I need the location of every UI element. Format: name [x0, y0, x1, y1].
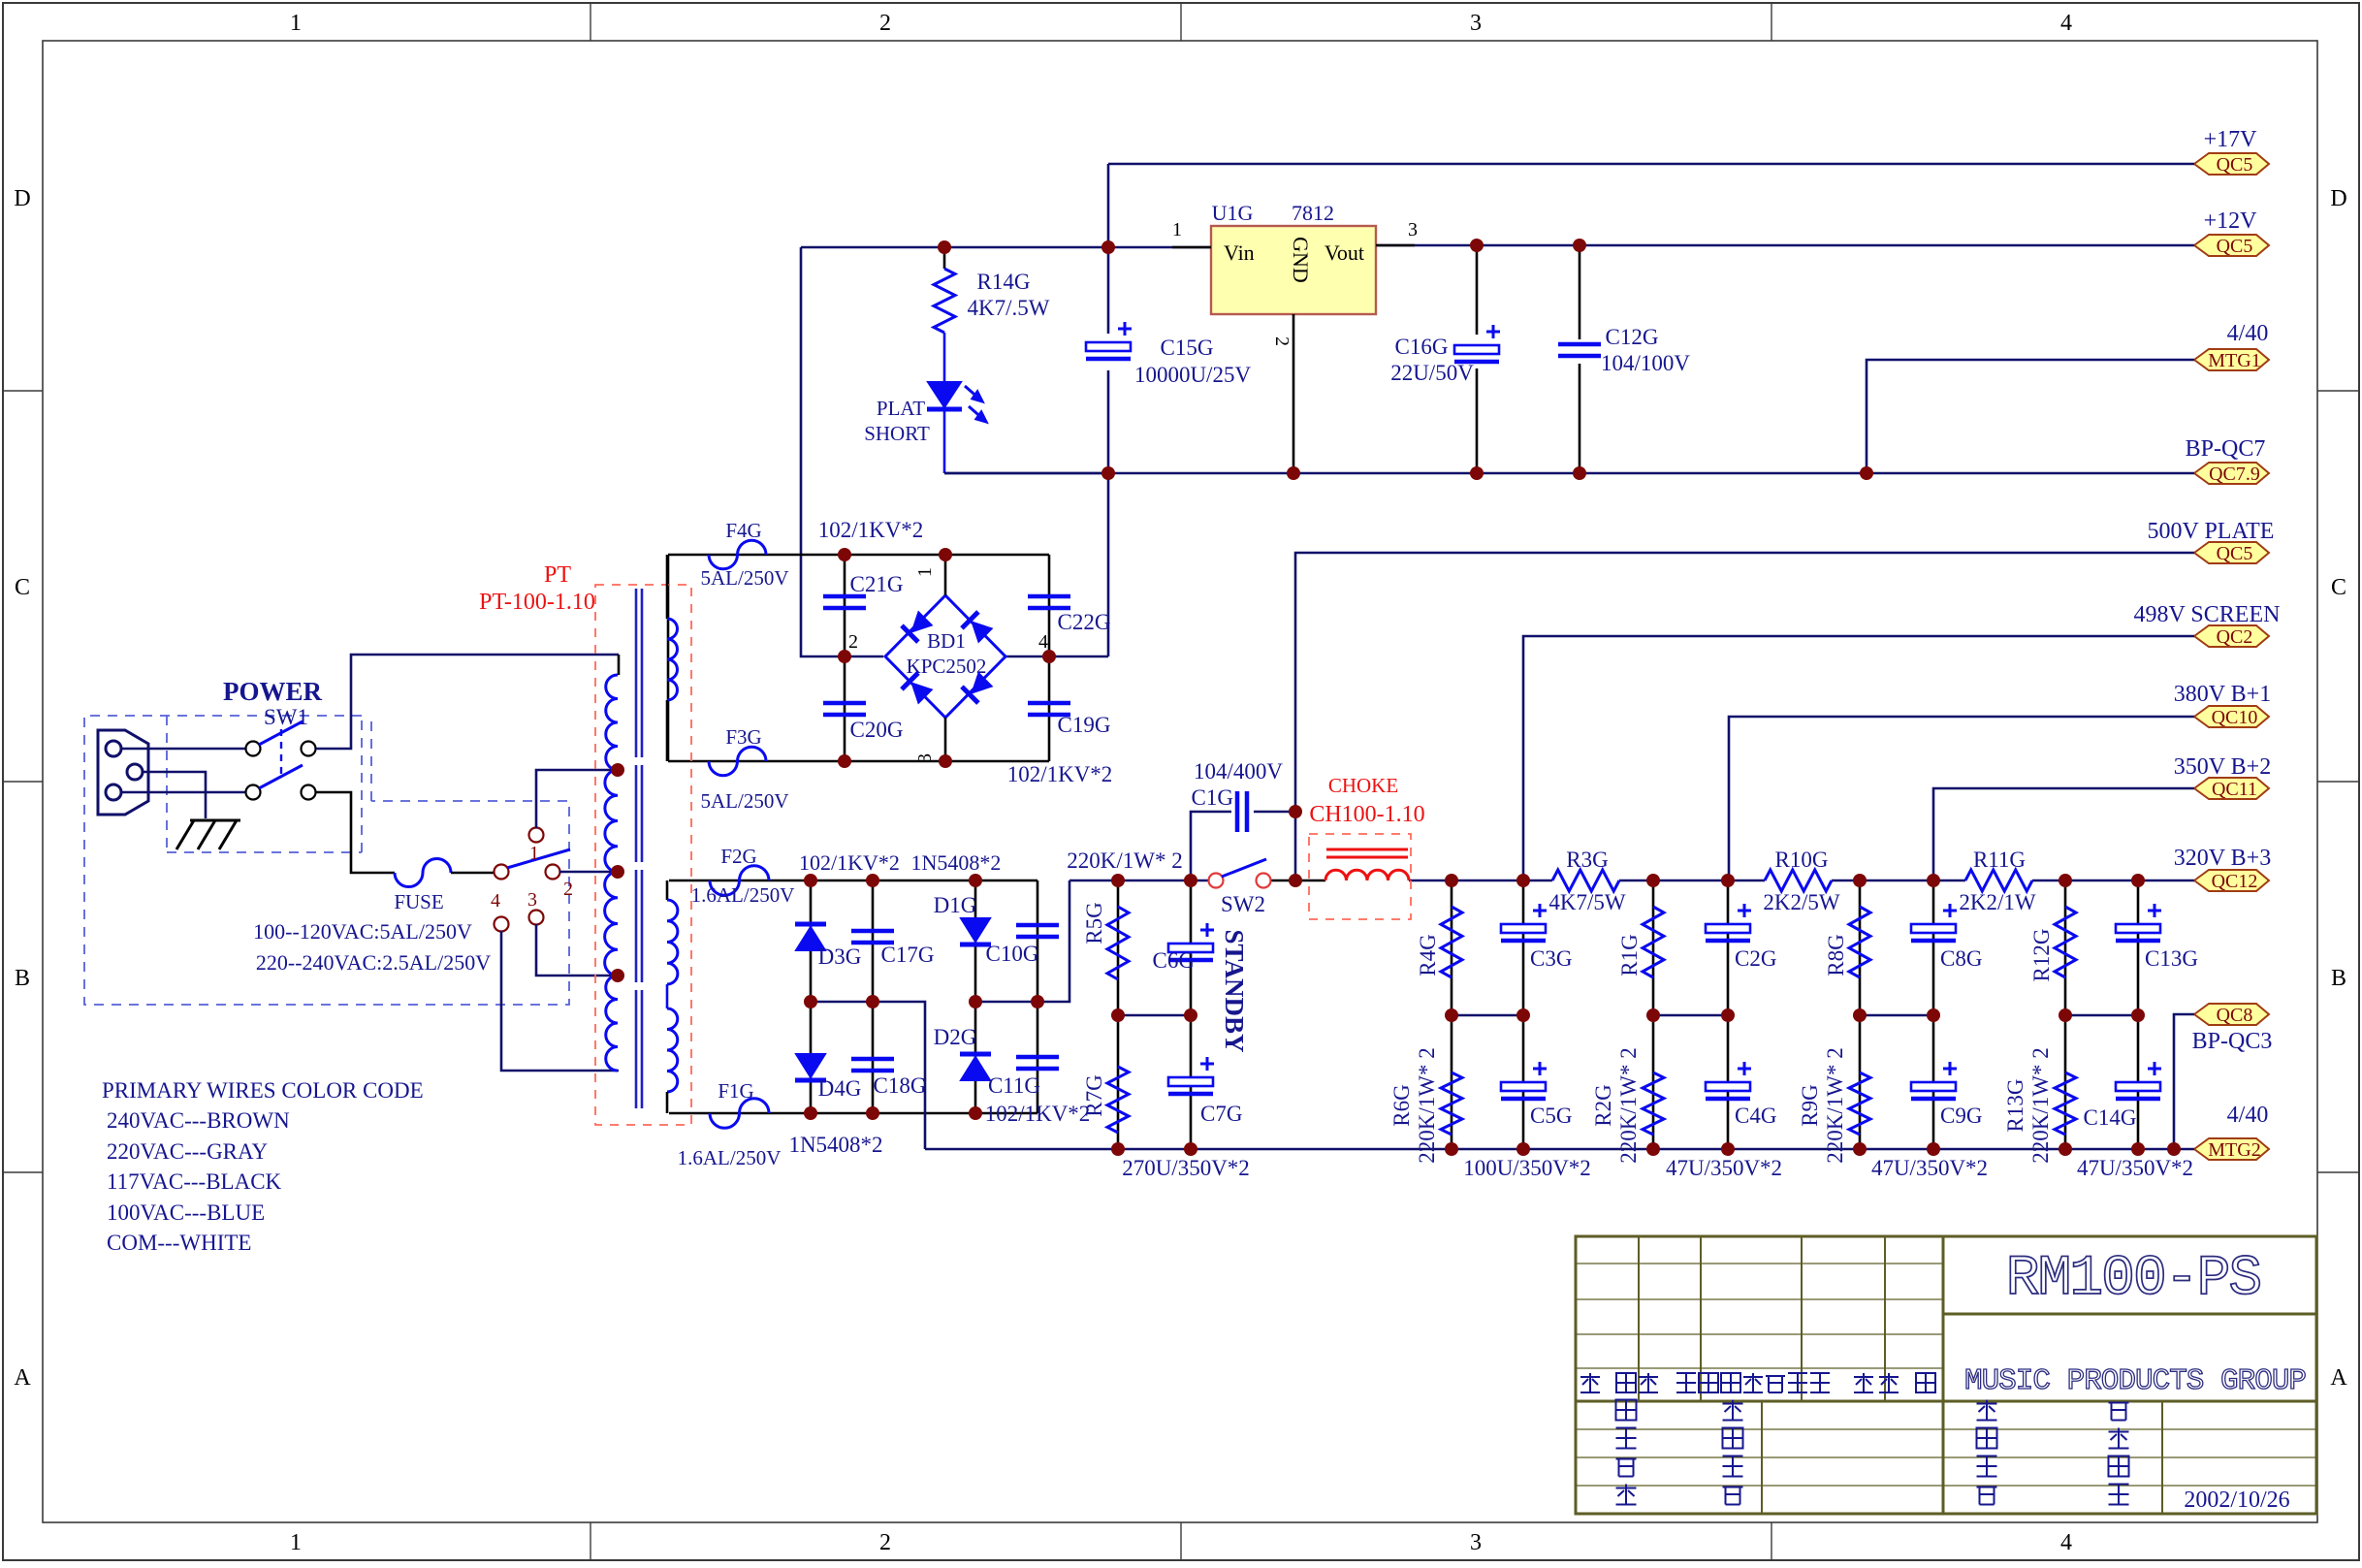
wire selector tap4 [501, 931, 619, 1071]
svg-text:1N5408*2: 1N5408*2 [911, 850, 1002, 875]
svg-text:270U/350V*2: 270U/350V*2 [1122, 1156, 1250, 1180]
bridge BD1 KPC2502 [885, 595, 1005, 718]
diode D1G [974, 880, 977, 1002]
bridge diode top-right [962, 612, 994, 644]
wire 220K node to SW2 [1069, 880, 1208, 882]
wire F2G line [669, 880, 1037, 882]
svg-text:22U/50V: 22U/50V [1390, 361, 1474, 385]
capacitor C11G [1016, 1055, 1059, 1060]
red dashed transformer box [595, 585, 691, 1125]
svg-text:2: 2 [879, 11, 891, 36]
wire SW1 to fuse [316, 792, 395, 873]
U1G pin 3 [1376, 244, 1415, 247]
voltage selector switch [495, 865, 509, 880]
svg-text:+17V: +17V [2204, 127, 2258, 152]
svg-text:D2G: D2G [934, 1025, 977, 1049]
svg-text:C11G: C11G [988, 1073, 1040, 1098]
wire fuse to selector [451, 872, 495, 875]
svg-text:B: B [2331, 966, 2346, 991]
title block header row hanzi [1580, 1373, 1600, 1392]
svg-text:4: 4 [2060, 11, 2072, 36]
svg-text:C10G: C10G [986, 942, 1039, 966]
capacitor C5G [1522, 1015, 1525, 1149]
fuse F4G [709, 540, 766, 569]
svg-text:104/100V: 104/100V [1601, 351, 1690, 375]
series resistor R11G [1965, 870, 2032, 891]
fuse F1G [710, 1099, 769, 1129]
connector MTG1 [2194, 349, 2269, 370]
svg-text:A: A [2330, 1365, 2347, 1391]
resistor R14G [934, 269, 955, 333]
svg-text:QC11: QC11 [2212, 779, 2257, 800]
svg-text:POWER: POWER [223, 677, 323, 706]
svg-text:3: 3 [914, 753, 936, 763]
transformer HV secondary [666, 555, 669, 619]
svg-text:COM---WHITE: COM---WHITE [107, 1231, 251, 1255]
wire Vin drop to bridge pin2 [801, 247, 883, 656]
wire +12V rail [1376, 244, 2194, 247]
svg-text:C13G: C13G [2145, 946, 2198, 971]
svg-text:C5G: C5G [1530, 1104, 1572, 1128]
LED PLAT SHORT [928, 382, 961, 407]
svg-text:C2G: C2G [1735, 946, 1776, 971]
connector QC5 (+12V) [2194, 235, 2269, 256]
svg-text:CHOKE: CHOKE [1328, 774, 1398, 797]
svg-text:Vout: Vout [1325, 240, 1364, 265]
capacitor C16G column [1476, 245, 1479, 335]
svg-text:Vin: Vin [1224, 240, 1255, 265]
svg-text:3: 3 [1470, 11, 1482, 36]
svg-text:117VAC---BLACK: 117VAC---BLACK [107, 1169, 282, 1194]
svg-text:D: D [2330, 186, 2346, 211]
fuse F3G [709, 747, 766, 776]
svg-text:MTG2: MTG2 [2208, 1139, 2260, 1161]
wire bottom rail MTG2 [925, 1148, 2194, 1151]
wire R14G column [943, 247, 946, 269]
diode D3G [810, 880, 813, 1002]
svg-text:1N5408*2: 1N5408*2 [788, 1133, 882, 1157]
svg-text:QC2: QC2 [2217, 626, 2253, 648]
capacitor C21G [844, 555, 846, 656]
wire SW2 to choke [1271, 880, 1325, 882]
capacitor C16G [1454, 345, 1499, 354]
primary tap dots [611, 763, 624, 777]
svg-text:C18G: C18G [874, 1073, 927, 1098]
svg-text:240VAC---BROWN: 240VAC---BROWN [107, 1108, 290, 1133]
connector MTG2 [2194, 1138, 2269, 1160]
border zone ticks [590, 3, 591, 41]
capacitor C8G [1932, 880, 1935, 1015]
capacitor C15G [1086, 342, 1131, 351]
svg-text:PT: PT [544, 562, 571, 588]
wire selector tap3 [536, 924, 618, 976]
resistor R13G [2064, 1015, 2067, 1149]
svg-text:2002/10/26: 2002/10/26 [2184, 1488, 2289, 1513]
connector QC2 [2194, 625, 2269, 647]
svg-text:CH100-1.10: CH100-1.10 [1309, 802, 1424, 827]
wire bridge pin4 to ground column [1005, 656, 1108, 658]
connector QC7.9 [2194, 463, 2269, 484]
svg-text:R11G: R11G [1973, 848, 2026, 872]
svg-text:R3G: R3G [1566, 848, 1608, 872]
svg-text:C3G: C3G [1530, 946, 1572, 971]
svg-text:QC12: QC12 [2212, 871, 2258, 892]
svg-text:C12G: C12G [1606, 325, 1659, 349]
wire F1G line [669, 1112, 1037, 1115]
svg-text:GND: GND [1289, 237, 1313, 283]
wire 500V PLATE [1295, 553, 2194, 880]
resistor R12G [2064, 880, 2067, 1015]
svg-text:350V B+2: 350V B+2 [2174, 754, 2271, 780]
svg-text:SHORT: SHORT [864, 422, 930, 445]
wire selector tap1 [536, 770, 618, 828]
svg-text:STANDBY: STANDBY [1220, 929, 1249, 1052]
svg-text:C: C [15, 575, 30, 600]
svg-text:102/1KV*2: 102/1KV*2 [1007, 762, 1113, 786]
svg-text:C16G: C16G [1395, 335, 1449, 359]
connector QC5 (500V PLATE) [2194, 542, 2269, 563]
resistor R9G [1859, 1015, 1862, 1149]
svg-text:4: 4 [1038, 631, 1048, 653]
wire F4G line [668, 554, 1049, 557]
svg-text:4K7/5W: 4K7/5W [1548, 890, 1626, 914]
svg-text:C15G: C15G [1161, 336, 1214, 360]
capacitor C12G column [1579, 245, 1581, 339]
capacitor C4G [1727, 1015, 1730, 1149]
wire HV loop left side [667, 555, 670, 761]
svg-text:47U/350V*2: 47U/350V*2 [2077, 1156, 2193, 1180]
svg-text:R6G: R6G [1389, 1084, 1414, 1126]
capacitor C1G [1191, 812, 1231, 880]
svg-text:2K2/5W: 2K2/5W [1763, 890, 1840, 914]
svg-text:U1G: U1G [1212, 201, 1254, 225]
svg-text:5AL/250V: 5AL/250V [701, 566, 789, 590]
svg-text:D1G: D1G [934, 893, 977, 917]
resistor R1G [1652, 880, 1655, 1015]
bridge diode bottom-right [962, 671, 994, 703]
svg-text:F1G: F1G [718, 1079, 753, 1103]
capacitor C19G [1048, 656, 1051, 761]
resistor R6G [1451, 1015, 1453, 1149]
svg-text:C9G: C9G [1940, 1104, 1982, 1128]
wire R4G-C3G mid [1452, 1014, 1523, 1017]
svg-text:C8G: C8G [1940, 946, 1982, 971]
capacitor C3G [1522, 880, 1525, 1015]
svg-text:1: 1 [1172, 219, 1182, 240]
svg-text:1: 1 [290, 11, 302, 36]
wire B+3 rail [1409, 880, 2194, 882]
wire plug neutral to SW1 [121, 791, 245, 794]
svg-text:4: 4 [491, 890, 500, 912]
svg-text:R9G: R9G [1798, 1084, 1822, 1126]
svg-text:498V SCREEN: 498V SCREEN [2134, 602, 2281, 627]
title rows hanzi left [1616, 1400, 1637, 1421]
wire R1G-C2G mid [1653, 1014, 1728, 1017]
svg-text:R5G: R5G [1082, 902, 1106, 944]
regulator U1G 7812 body [1211, 226, 1376, 314]
capacitor C20G [844, 656, 846, 761]
resistor R7G [1117, 1015, 1120, 1149]
svg-text:C1G: C1G [1192, 785, 1233, 810]
wire doubler1 midpoint [811, 1002, 925, 1149]
svg-text:R1G: R1G [1617, 934, 1642, 976]
svg-text:QC7.9: QC7.9 [2209, 464, 2260, 485]
svg-text:220K/1W* 2: 220K/1W* 2 [1823, 1047, 1847, 1163]
svg-text:BP-QC7: BP-QC7 [2186, 436, 2266, 462]
svg-text:SW1: SW1 [264, 705, 308, 729]
blue dashed enclosure [84, 716, 569, 1005]
svg-text:47U/350V*2: 47U/350V*2 [1871, 1156, 1988, 1180]
series resistor R10G [1765, 870, 1832, 891]
svg-text:C17G: C17G [881, 943, 935, 967]
svg-text:3: 3 [527, 889, 537, 911]
svg-text:4K7/.5W: 4K7/.5W [968, 296, 1050, 320]
transformer LV secondary [666, 880, 669, 900]
svg-text:2: 2 [1271, 336, 1293, 346]
svg-text:D4G: D4G [818, 1076, 862, 1101]
capacitor C7G [1190, 1015, 1193, 1149]
svg-text:C7G: C7G [1200, 1102, 1242, 1126]
bridge diode top-left [902, 610, 934, 642]
capacitor C18G [872, 1002, 875, 1113]
svg-text:R10G: R10G [1775, 848, 1829, 872]
wire R8G-C8G mid [1860, 1014, 1933, 1017]
title rows hanzi right [1977, 1400, 1997, 1421]
svg-text:PRIMARY WIRES COLOR CODE: PRIMARY WIRES COLOR CODE [102, 1078, 424, 1103]
capacitor C6G [1190, 880, 1193, 1015]
svg-text:C4G: C4G [1735, 1104, 1776, 1128]
svg-text:R12G: R12G [2029, 929, 2054, 982]
svg-text:220K/1W* 2: 220K/1W* 2 [2028, 1047, 2053, 1163]
U1G pin 2 GND lead [1293, 314, 1295, 473]
wire Vin rail [801, 246, 1211, 249]
junction dots top area [1101, 240, 1115, 254]
capacitor C10G [1016, 923, 1059, 928]
svg-text:1: 1 [529, 843, 539, 864]
choke junction dots [1289, 805, 1302, 818]
svg-text:100VAC---BLUE: 100VAC---BLUE [107, 1200, 265, 1225]
rail junction dots [2167, 1142, 2181, 1156]
connector QC10 [2194, 706, 2269, 727]
svg-text:B: B [15, 966, 30, 991]
capacitor C14G [2137, 1015, 2140, 1149]
svg-text:BD1: BD1 [927, 629, 966, 653]
capacitor C2G [1727, 880, 1730, 1015]
svg-text:1.6AL/250V: 1.6AL/250V [678, 1146, 782, 1169]
svg-text:C14G: C14G [2084, 1105, 2137, 1130]
fuse FUSE [395, 859, 451, 887]
svg-text:3: 3 [1408, 219, 1418, 240]
wire plug line to SW1 [121, 748, 245, 751]
wire 498V SCREEN [1523, 636, 2194, 880]
svg-text:220K/1W* 2: 220K/1W* 2 [1415, 1047, 1439, 1163]
svg-text:220--240VAC:2.5AL/250V: 220--240VAC:2.5AL/250V [256, 950, 491, 975]
svg-text:100--120VAC:5AL/250V: 100--120VAC:5AL/250V [253, 919, 472, 944]
svg-text:3: 3 [1470, 1530, 1482, 1555]
transformer primary winding [618, 655, 621, 675]
svg-text:F2G: F2G [720, 845, 756, 868]
capacitor C12G [1558, 342, 1601, 347]
fuse F2G [710, 866, 769, 896]
svg-text:R4G: R4G [1416, 934, 1440, 976]
svg-text:FUSE: FUSE [394, 890, 443, 913]
svg-text:100U/350V*2: 100U/350V*2 [1463, 1156, 1591, 1180]
U1G pin 1 [1172, 246, 1211, 249]
wire QC8 branch [2174, 1014, 2194, 1149]
svg-text:C22G: C22G [1058, 610, 1111, 634]
svg-text:7812: 7812 [1292, 201, 1334, 225]
wire ground rail BP-QC7 [944, 472, 2194, 475]
resistor R8G [1859, 880, 1862, 1015]
svg-text:2: 2 [848, 631, 858, 653]
svg-text:QC8: QC8 [2217, 1005, 2253, 1026]
doubler junction dots [804, 874, 817, 887]
svg-text:+12V: +12V [2204, 208, 2258, 234]
resistor R4G [1451, 880, 1453, 1015]
wire MTG1 branch [1867, 360, 2194, 473]
transformer core [635, 589, 638, 757]
svg-text:500V PLATE: 500V PLATE [2148, 519, 2275, 544]
wire +17V rail [1108, 163, 2194, 166]
wire 380V B+1 [1729, 717, 2194, 880]
wire SW1 to transformer top [316, 655, 619, 749]
svg-text:220K/1W* 2: 220K/1W* 2 [1067, 848, 1182, 873]
svg-text:C: C [2331, 575, 2346, 600]
svg-text:104/400V: 104/400V [1194, 759, 1283, 784]
wire C15G column [1107, 164, 1110, 334]
svg-text:C20G: C20G [850, 718, 904, 742]
AC plug [98, 730, 148, 815]
svg-text:102/1KV*2: 102/1KV*2 [985, 1102, 1091, 1126]
capacitor C13G [2137, 880, 2140, 1015]
diode D2G [974, 1002, 977, 1113]
capacitor C17G [872, 880, 875, 1002]
svg-text:1: 1 [914, 567, 936, 577]
capacitor C9G [1932, 1015, 1935, 1149]
svg-text:320V B+3: 320V B+3 [2174, 846, 2271, 871]
svg-text:R14G: R14G [977, 270, 1031, 294]
wire plug earth [143, 772, 206, 818]
svg-text:RM100-PS: RM100-PS [2006, 1248, 2260, 1311]
earth ground symbol [176, 820, 240, 849]
svg-text:MTG1: MTG1 [2208, 350, 2260, 371]
svg-text:D: D [14, 186, 30, 211]
connector QC5 (+17V) [2194, 153, 2269, 175]
diode D4G [810, 1002, 813, 1113]
wire R5G-C6G mid [1118, 1014, 1191, 1017]
capacitor C22G [1048, 555, 1051, 656]
svg-text:102/1KV*2: 102/1KV*2 [818, 518, 924, 542]
svg-text:QC5: QC5 [2217, 543, 2253, 564]
svg-text:SW2: SW2 [1221, 892, 1265, 916]
svg-text:F3G: F3G [725, 725, 761, 749]
switch SW2 STANDBY [1209, 874, 1224, 888]
svg-text:R7G: R7G [1082, 1074, 1106, 1116]
svg-text:F4G: F4G [725, 519, 761, 542]
bridge diode bottom-left [902, 673, 934, 705]
connector QC8 [2194, 1004, 2269, 1025]
bridge junction dots [838, 548, 851, 561]
svg-text:102/1KV*2: 102/1KV*2 [799, 850, 900, 875]
connector QC11 [2194, 778, 2269, 799]
svg-text:2: 2 [563, 879, 573, 900]
svg-text:10000U/25V: 10000U/25V [1134, 363, 1252, 387]
svg-text:2K2/1W: 2K2/1W [1959, 890, 2036, 914]
svg-text:4/40: 4/40 [2227, 321, 2269, 346]
svg-text:A: A [14, 1365, 31, 1391]
svg-text:C6G: C6G [1153, 948, 1195, 973]
wire 350V B+2 [1933, 788, 2194, 880]
svg-text:2: 2 [879, 1530, 891, 1555]
svg-text:PLAT: PLAT [877, 397, 925, 420]
wire selector tap2 [559, 871, 618, 874]
svg-text:220K/1W* 2: 220K/1W* 2 [1616, 1047, 1641, 1163]
svg-text:D3G: D3G [818, 944, 862, 969]
series resistor R3G [1552, 870, 1619, 891]
wire R12G-C13G mid [2065, 1014, 2138, 1017]
resistor R2G [1652, 1015, 1655, 1149]
svg-text:C19G: C19G [1058, 713, 1111, 737]
svg-text:R8G: R8G [1824, 934, 1848, 976]
svg-text:1: 1 [290, 1530, 302, 1555]
svg-text:QC5: QC5 [2217, 236, 2253, 257]
svg-text:C21G: C21G [850, 572, 904, 596]
wire doubler2 midpoint [975, 880, 1069, 1002]
svg-text:MUSIC PRODUCTS GROUP: MUSIC PRODUCTS GROUP [1964, 1364, 2306, 1398]
connector QC12 [2194, 870, 2269, 891]
svg-text:380V B+1: 380V B+1 [2174, 682, 2271, 707]
svg-text:BP-QC3: BP-QC3 [2192, 1029, 2273, 1054]
svg-text:R13G: R13G [2003, 1079, 2027, 1133]
resistor R5G [1117, 880, 1120, 1015]
svg-text:QC10: QC10 [2212, 707, 2258, 728]
svg-text:PT-100-1.10: PT-100-1.10 [479, 590, 595, 615]
svg-text:QC5: QC5 [2217, 154, 2253, 176]
svg-text:220VAC---GRAY: 220VAC---GRAY [107, 1139, 269, 1164]
svg-text:R2G: R2G [1591, 1084, 1615, 1126]
svg-text:1.6AL/250V: 1.6AL/250V [691, 883, 795, 907]
svg-text:47U/350V*2: 47U/350V*2 [1666, 1156, 1782, 1180]
svg-text:4: 4 [2060, 1530, 2072, 1555]
svg-text:4/40: 4/40 [2227, 1103, 2269, 1128]
svg-text:5AL/250V: 5AL/250V [701, 789, 789, 813]
title block frame [1576, 1236, 2316, 1514]
wire F3G line [668, 760, 1049, 763]
